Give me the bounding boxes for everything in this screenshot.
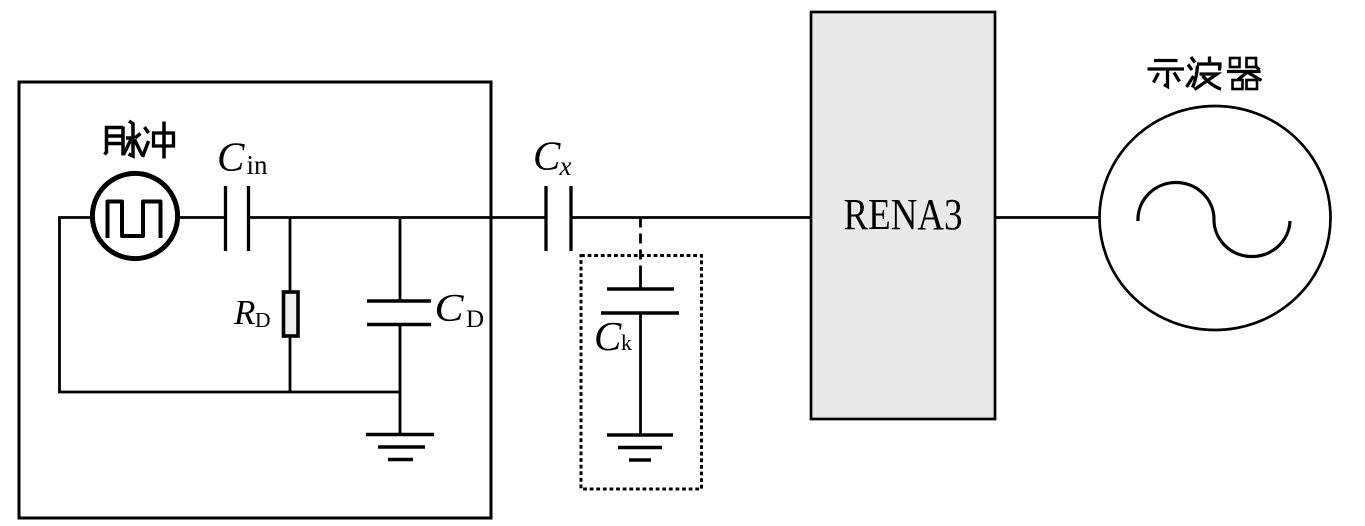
RENA3 chip box (811, 12, 995, 419)
wire: Cin to Cx (249, 216, 547, 219)
dotted box around Ck (581, 256, 702, 490)
波 (1191, 57, 1195, 63)
resistor RD branch wire bottom (289, 337, 292, 392)
ground under Ck (607, 435, 673, 460)
resistor RD body (284, 292, 299, 336)
dashed stub from main wire to Ck (639, 218, 642, 277)
脉 : moon radical (105, 126, 107, 155)
svg-text:RENA3: RENA3 (844, 190, 963, 239)
capacitor Cin plates (226, 186, 249, 251)
ground under CD (366, 435, 434, 460)
capacitor CD branch wire top (399, 218, 402, 302)
capacitor Ck bottom wire (639, 313, 642, 435)
capacitor CD bottom wire (399, 325, 402, 435)
svg-text:C: C (435, 287, 465, 330)
pulse source circle (92, 173, 177, 258)
svg-text:k: k (621, 330, 632, 355)
resistor RD branch wire top (289, 218, 292, 293)
label 脉冲 (pulse) (105, 121, 174, 159)
wire: pulse source left loop (60, 218, 401, 393)
oscilloscope circle (1100, 106, 1331, 330)
capacitor Ck plates (601, 289, 679, 313)
capacitor Cx plates (546, 186, 571, 251)
svg-text:C: C (533, 133, 561, 179)
脉 : right part (129, 121, 134, 125)
outer dashed-free detector box (19, 82, 491, 518)
wire: Cx to RENA3 (571, 216, 811, 219)
冲 : ice radical (145, 127, 149, 133)
器 (1230, 58, 1240, 67)
svg-text:D: D (466, 306, 484, 333)
svg-text:D: D (255, 308, 271, 332)
oscilloscope sine symbol (1138, 183, 1290, 257)
示 (1154, 59, 1178, 62)
svg-text:x: x (559, 151, 572, 181)
svg-text:in: in (247, 150, 269, 180)
svg-text:R: R (233, 293, 255, 332)
wire: RENA3 to oscilloscope (995, 216, 1103, 219)
label 示波器 (oscilloscope) (1148, 57, 1262, 90)
pulse square-wave symbol (108, 202, 161, 239)
capacitor CD plates (367, 301, 431, 325)
wire: pulse source to Cin (178, 216, 226, 219)
svg-text:C: C (594, 313, 622, 359)
冲 : middle part (154, 133, 174, 146)
svg-text:C: C (217, 134, 245, 180)
